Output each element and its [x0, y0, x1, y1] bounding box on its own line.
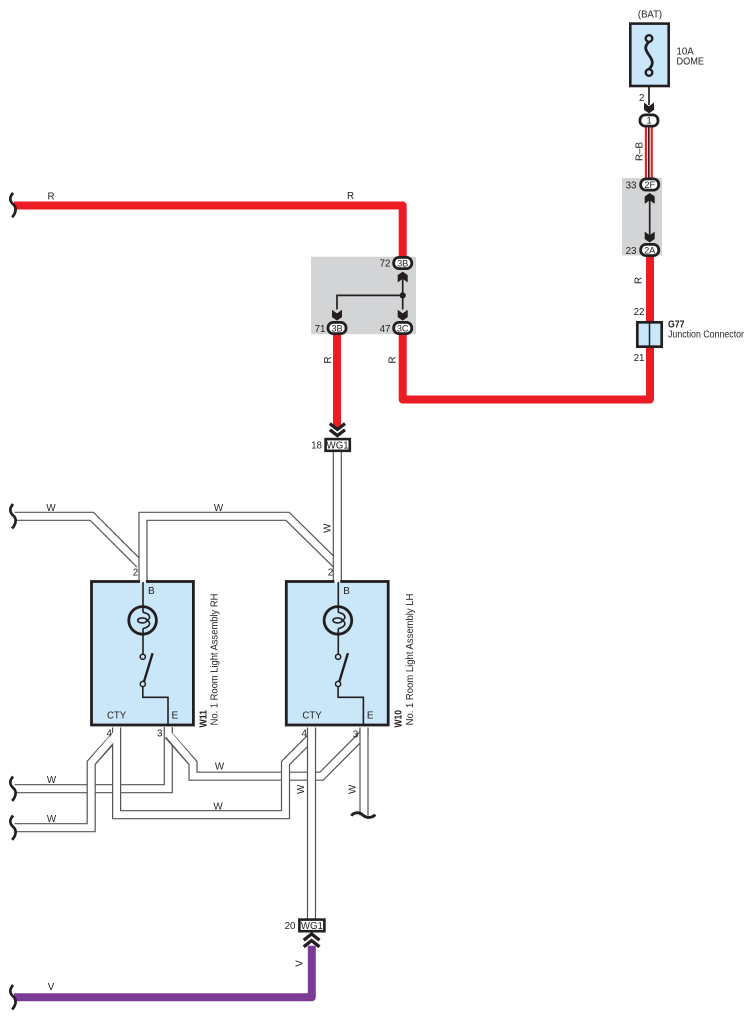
bulb (W11 lamp) — [129, 607, 157, 635]
connector 2A oval — [641, 244, 659, 255]
pin slot break in W11 top border — [140, 580, 146, 583]
wire W (W11 pin4 CTY diagonal down-left to squiggle2) — [15, 735, 117, 828]
squiggle continuation (white wire, y516) — [10, 504, 15, 528]
junction connector G77 — [637, 322, 661, 346]
svg-text:20: 20 — [285, 921, 296, 932]
arrow up (inside J/B) — [645, 193, 655, 204]
connector WG1 (pin 18) — [326, 439, 350, 451]
junction block J/B shading (top right, 2F/2A) — [622, 178, 662, 256]
wire W (W11 pin4 CTY down, right, up diagonal to W10 pin4 CTY) — [117, 728, 312, 815]
svg-text:71: 71 — [315, 324, 326, 335]
chevron arrows into WG1 pin20 (pointing up) — [304, 934, 320, 947]
node (junction dot) — [400, 292, 406, 298]
svg-text:2A: 2A — [644, 245, 656, 255]
svg-text:33: 33 — [626, 181, 637, 192]
svg-text:2F: 2F — [644, 180, 655, 190]
svg-text:Junction Connector: Junction Connector — [668, 330, 745, 341]
svg-text:3B: 3B — [397, 258, 408, 268]
W11 internals — [107, 582, 179, 724]
wire W (W10 pin4 CTY straight down to WG1 pin20) — [307, 727, 316, 920]
svg-text:4: 4 — [302, 729, 308, 740]
wire W (WG1 pin18 down to W10 pin2 B) — [333, 452, 342, 582]
svg-text:V: V — [294, 960, 305, 967]
room light assembly W11 box — [92, 582, 194, 726]
svg-text:R: R — [47, 192, 54, 203]
svg-text:No. 1 Room Light Assembly LH: No. 1 Room Light Assembly LH — [405, 594, 416, 726]
connector 2F oval — [641, 179, 659, 190]
svg-text:(BAT): (BAT) — [638, 9, 662, 21]
svg-text:W: W — [323, 523, 334, 533]
svg-text:2: 2 — [133, 568, 138, 579]
svg-text:DOME: DOME — [677, 56, 705, 68]
wire R-B (from connector 1 down to 2F pin33, red with black tracer) — [645, 127, 647, 178]
squiggle continuation (white wire y788.7) — [10, 777, 15, 801]
wire (inside J/B vertical) — [649, 200, 651, 235]
svg-text:W: W — [296, 784, 307, 794]
connector 3C oval (pin 47) — [394, 322, 412, 333]
svg-text:W: W — [47, 775, 57, 786]
wire R (battery feed horizontal from page-left to node above 3B) — [14, 206, 403, 260]
wire (B to bulb) — [142, 582, 144, 613]
svg-text:WG1: WG1 — [327, 440, 349, 451]
wire (bulb to switch) — [337, 629, 339, 655]
svg-text:No. 1 Room Light Assembly RH: No. 1 Room Light Assembly RH — [209, 594, 220, 726]
arrow up into 3B — [398, 272, 408, 283]
svg-text:3C: 3C — [397, 323, 409, 333]
svg-text:W: W — [215, 762, 225, 773]
svg-text:W11: W11 — [198, 710, 209, 728]
svg-text:1: 1 — [646, 116, 651, 126]
svg-text:3: 3 — [353, 730, 359, 741]
wire (3B down to node) — [402, 279, 404, 295]
svg-text:WG1: WG1 — [301, 921, 323, 932]
svg-text:E: E — [367, 711, 374, 722]
arrow down into 3B (pin71) — [332, 310, 342, 321]
wire (switch to E pin, W11) — [143, 687, 168, 724]
svg-text:V: V — [48, 982, 55, 993]
switch contact lower (W11) — [140, 681, 145, 686]
bulb (W10 lamp) — [324, 607, 352, 635]
svg-text:21: 21 — [634, 353, 645, 364]
switch blade (W10) — [339, 653, 348, 681]
connector WG1 (pin 20) — [299, 920, 324, 932]
svg-text:R: R — [347, 191, 354, 202]
svg-text:R–B: R–B — [635, 142, 646, 162]
wire (fuse output stub) — [648, 87, 650, 105]
tilde continuation (W10 pin3 wire end) — [351, 813, 375, 818]
squiggle continuation (red wire, page left) — [10, 193, 15, 217]
connector 3B oval (pin 72) — [394, 257, 412, 268]
junction block J/B shading (middle, 3B/3C) — [311, 257, 416, 335]
svg-text:W: W — [46, 503, 56, 514]
svg-text:R: R — [323, 356, 334, 363]
switch contact upper (W11) — [140, 654, 145, 659]
svg-text:W: W — [347, 784, 358, 794]
connector 3B oval (pin 71) — [328, 322, 346, 333]
switch blade (W11) — [144, 653, 153, 681]
wire W (W11 pin2 B up, right, diagonal down to W10 pin2 B) — [143, 516, 337, 581]
svg-text:2: 2 — [328, 568, 333, 579]
squiggle continuation (violet wire bottom left) — [10, 985, 15, 1009]
wire R (from 3C pin47 down, right, up through G77 to 2A pin23) — [403, 256, 650, 400]
pin slot break in W10 top border — [334, 580, 340, 583]
arrow down into 3C — [398, 310, 408, 321]
wire (bulb to switch) — [142, 629, 144, 655]
wire (node left to 3B pin71 branch) — [337, 295, 403, 309]
svg-text:47: 47 — [380, 324, 391, 335]
svg-text:3: 3 — [157, 729, 163, 740]
arrow down (inside J/B) — [645, 232, 655, 243]
wire W (W10 pin3 E straight down to tilde continuation) — [359, 727, 368, 816]
wire R (from 3B pin71 down to WG1 pin18) — [333, 334, 341, 428]
svg-text:R: R — [634, 277, 645, 284]
svg-text:4: 4 — [107, 729, 113, 740]
svg-text:2: 2 — [639, 93, 644, 104]
wire V (from WG1 pin20 down and left to page edge) — [14, 946, 312, 998]
squiggle continuation (white wire y827.7) — [10, 816, 15, 840]
wire W (squiggle at left to W11 pin2 B, horizontal y516.3) — [15, 516, 141, 565]
svg-text:W: W — [214, 503, 224, 514]
svg-text:R: R — [387, 356, 398, 363]
wire (B to bulb) — [337, 582, 339, 613]
svg-text:CTY: CTY — [107, 711, 127, 722]
wire W (W11 pin3 E diagonal to W10 pin3 E, horizontal y776.2) — [168, 727, 364, 776]
svg-text:CTY: CTY — [302, 711, 322, 722]
W10 internals — [302, 582, 374, 724]
svg-text:W10: W10 — [394, 710, 405, 728]
switch contact lower (W10) — [336, 681, 341, 686]
chevron arrows into WG1 pin18 — [330, 424, 345, 436]
svg-text:W: W — [47, 814, 57, 825]
arrow down into connector 1 — [644, 103, 654, 114]
svg-text:B: B — [148, 586, 155, 597]
fuse DOME 10A (BAT) — [630, 24, 668, 86]
svg-text:W: W — [213, 802, 223, 813]
switch contact upper (W10) — [336, 654, 341, 659]
wire (switch to E pin, W10) — [338, 687, 363, 724]
wire W (squiggle1 to W11 pin3 E, horizontal y788.7) — [15, 726, 169, 789]
svg-text:E: E — [172, 711, 179, 722]
svg-text:23: 23 — [626, 246, 637, 257]
wire (node down to 3C) — [402, 295, 404, 309]
svg-text:B: B — [343, 586, 350, 597]
svg-text:72: 72 — [380, 259, 391, 270]
svg-text:18: 18 — [311, 441, 322, 452]
room light assembly W10 box — [286, 582, 388, 726]
svg-text:3B: 3B — [331, 323, 342, 333]
svg-text:22: 22 — [634, 307, 645, 318]
connector 1 oval — [640, 115, 658, 126]
